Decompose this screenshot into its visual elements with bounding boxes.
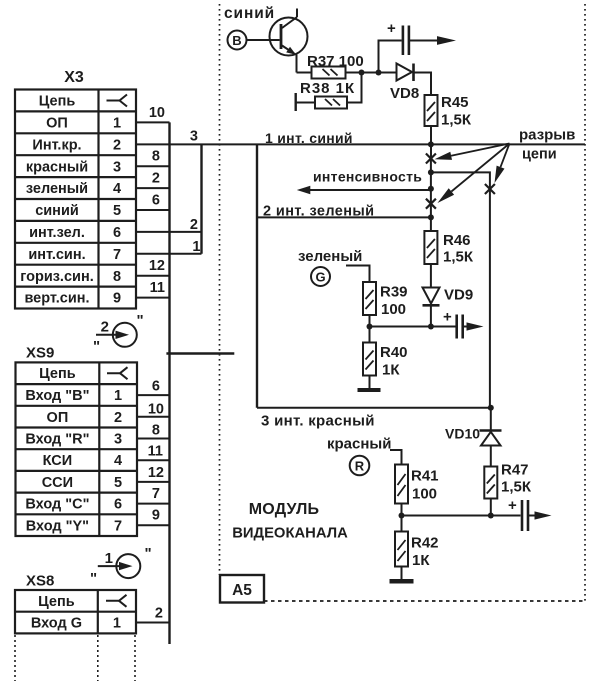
svg-text:Инт.кр.: Инт.кр. xyxy=(32,137,81,153)
svg-text:1,5К: 1,5К xyxy=(443,249,474,266)
wire red input xyxy=(390,450,402,465)
svg-text:верт.син.: верт.син. xyxy=(24,291,89,307)
wire R38 to node xyxy=(347,73,362,103)
arrow intensity left xyxy=(297,186,311,195)
wire capacitor to arrow xyxy=(410,40,440,42)
XS8 table texts xyxy=(31,594,121,632)
break cross 1 xyxy=(426,154,436,164)
svg-text:2: 2 xyxy=(190,217,198,233)
svg-text:4: 4 xyxy=(113,181,121,197)
wire base lead xyxy=(247,39,280,41)
wire XS9 pin 7 stub xyxy=(137,524,170,526)
resistor R47 xyxy=(484,467,497,499)
resistor R39 xyxy=(363,282,376,315)
wire green rail xyxy=(370,326,456,328)
svg-text:разрыв: разрыв xyxy=(519,127,575,144)
svg-text:7: 7 xyxy=(152,486,160,502)
wire VD10 from line3 xyxy=(490,408,492,430)
svg-text:1: 1 xyxy=(113,616,121,632)
svg-text:VD9: VD9 xyxy=(444,287,473,304)
wire X3 pin 1 stub xyxy=(136,121,170,123)
dotted table continuation below XS8 xyxy=(15,635,135,681)
svg-text:R38 1К: R38 1К xyxy=(300,80,355,97)
svg-text:3: 3 xyxy=(190,129,198,145)
arrow out green xyxy=(464,326,470,328)
svg-text:5: 5 xyxy=(113,203,121,219)
svg-text:3: 3 xyxy=(113,159,121,175)
adjustment symbol 2 xyxy=(93,312,144,355)
module dashed border left xyxy=(219,4,221,575)
svg-text:1,5К: 1,5К xyxy=(501,479,532,496)
arrow out red xyxy=(529,515,537,517)
svg-text:G: G xyxy=(315,270,325,285)
svg-text:зеленый: зеленый xyxy=(298,248,362,265)
svg-text:1,5К: 1,5К xyxy=(441,112,472,129)
node dot line3 xyxy=(488,405,494,411)
node dot R47 rail xyxy=(488,513,494,519)
svg-text:R46: R46 xyxy=(443,232,471,249)
svg-text:2: 2 xyxy=(155,606,163,622)
svg-text:ХS9: ХS9 xyxy=(26,345,54,362)
svg-text:12: 12 xyxy=(149,258,165,274)
svg-text:R: R xyxy=(355,459,365,474)
resistor R38 xyxy=(315,97,347,109)
svg-text:зеленый: зеленый xyxy=(26,181,88,197)
wire R41 to R42 xyxy=(401,516,403,532)
svg-text:Вход "Y": Вход "Y" xyxy=(26,518,89,534)
wire line 1 int blue xyxy=(136,143,585,145)
wire XS9 pin 4 stub xyxy=(137,459,170,461)
wire bus A vertical xyxy=(168,122,170,644)
svg-text:Х3: Х3 xyxy=(64,69,84,86)
svg-text:КСИ: КСИ xyxy=(43,453,73,469)
resistor R41 xyxy=(395,465,408,504)
wire XS9 pin 1 stub xyxy=(137,394,170,396)
svg-text:4: 4 xyxy=(114,453,122,469)
svg-text:2 инт. зеленый: 2 инт. зеленый xyxy=(263,204,374,220)
connector table XS9 xyxy=(16,362,138,536)
svg-text:МОДУЛЬ: МОДУЛЬ xyxy=(249,501,319,518)
svg-text:Вход "С": Вход "С" xyxy=(25,497,89,513)
svg-text:ВИДЕОКАНАЛА: ВИДЕОКАНАЛА xyxy=(232,526,348,542)
svg-text:синий: синий xyxy=(224,5,275,22)
leader arrow to cross 3 xyxy=(501,144,510,168)
break cross 3 xyxy=(485,184,495,194)
svg-text:12: 12 xyxy=(148,465,164,481)
transistor VT (blue) xyxy=(270,9,308,73)
module dashed border right xyxy=(584,4,586,601)
wire X3 pin 4 stub xyxy=(136,187,170,189)
wire R39 to R40 xyxy=(369,327,371,343)
node dot VD9 rail xyxy=(428,324,434,330)
wire XS9 pin 6 stub xyxy=(137,503,170,505)
ground R42 xyxy=(390,579,414,584)
svg-text:Цепь: Цепь xyxy=(38,594,75,610)
svg-text:9: 9 xyxy=(152,508,160,524)
svg-text:8: 8 xyxy=(152,423,160,439)
wire X3 pin 9 stub xyxy=(136,297,170,299)
wire bar to R38 xyxy=(297,102,316,104)
svg-text:гориз.син.: гориз.син. xyxy=(20,269,93,285)
svg-text:6: 6 xyxy=(114,497,122,513)
capacitor C green xyxy=(457,315,463,339)
node dot R39 xyxy=(367,324,373,330)
wire right branch to second break xyxy=(431,172,490,407)
svg-text:+: + xyxy=(508,497,517,514)
resistor R42 xyxy=(395,532,408,567)
svg-text:9: 9 xyxy=(113,291,121,307)
wire VD9 to rail xyxy=(430,306,432,327)
svg-text:красный: красный xyxy=(327,436,391,453)
wire R41 to rail xyxy=(401,504,403,516)
svg-text:": " xyxy=(137,312,144,329)
svg-text:VD10: VD10 xyxy=(445,426,480,442)
svg-text:10: 10 xyxy=(148,402,164,418)
svg-text:ХS8: ХS8 xyxy=(26,573,54,590)
svg-text:+: + xyxy=(443,309,452,326)
module designator A5 box xyxy=(220,575,264,603)
svg-text:Вход "В": Вход "В" xyxy=(25,388,89,404)
svg-text:ССИ: ССИ xyxy=(42,475,73,491)
wire bus C vertical xyxy=(256,144,258,407)
svg-text:6: 6 xyxy=(113,225,121,241)
svg-text:синий: синий xyxy=(35,203,79,219)
node G circled xyxy=(311,267,330,286)
diode VD10 xyxy=(480,431,502,446)
svg-text:3: 3 xyxy=(114,432,122,448)
wire R37 to VD8 xyxy=(346,72,397,74)
svg-text:100: 100 xyxy=(381,301,406,318)
svg-text:VD8: VD8 xyxy=(390,85,419,102)
svg-text:1: 1 xyxy=(113,116,121,132)
svg-text:+: + xyxy=(387,20,396,37)
svg-text:8: 8 xyxy=(152,149,160,165)
svg-text:10: 10 xyxy=(149,105,165,121)
svg-text:1К: 1К xyxy=(382,362,400,379)
node dot branch xyxy=(428,169,434,175)
svg-text:ОП: ОП xyxy=(47,410,69,426)
svg-text:11: 11 xyxy=(148,444,163,460)
resistor R37 xyxy=(312,67,346,79)
svg-text:R45: R45 xyxy=(441,94,469,111)
wire VD8 to R45 xyxy=(415,73,432,96)
node dot R41 xyxy=(399,513,405,519)
svg-text:2: 2 xyxy=(114,410,122,426)
svg-text:ОП: ОП xyxy=(46,116,68,132)
wire XS9 pin 2 stub xyxy=(137,416,170,418)
svg-text:8: 8 xyxy=(113,269,121,285)
wire line2 to R46 xyxy=(430,217,432,231)
svg-text:11: 11 xyxy=(150,280,165,296)
wire XS9 pin 3 stub xyxy=(137,438,170,440)
diode VD8 xyxy=(397,64,414,82)
X3 table texts xyxy=(20,94,121,307)
wire X3 pin 5 stub xyxy=(136,209,170,211)
wire X3 pin 6 to bus xyxy=(136,231,202,233)
terminal bar R38 left xyxy=(295,93,297,111)
leader arrow to cross 1 xyxy=(451,144,509,156)
XS9 table texts xyxy=(25,366,122,534)
XS9 header pin symbol xyxy=(107,367,128,373)
svg-text:2: 2 xyxy=(113,137,121,153)
svg-text:2: 2 xyxy=(152,171,160,187)
connector table XS8 xyxy=(15,590,136,633)
svg-text:интенсивность: интенсивность xyxy=(313,169,422,185)
adjustment symbol 1 xyxy=(90,545,152,587)
diode VD9 xyxy=(423,288,440,306)
svg-text:Вход G: Вход G xyxy=(31,616,82,632)
wire red rail xyxy=(402,515,521,517)
node dot line1 xyxy=(428,141,434,147)
svg-text:Цепь: Цепь xyxy=(39,366,76,382)
resistor R45 xyxy=(425,95,438,126)
node dot xyxy=(376,70,382,76)
svg-text:100: 100 xyxy=(412,486,437,503)
resistor R46 xyxy=(424,231,437,264)
capacitor C top xyxy=(403,26,409,56)
wire bus B vertical xyxy=(200,144,202,253)
svg-text:": " xyxy=(145,545,152,562)
XS8 header pin symbol xyxy=(106,595,127,601)
svg-text:Цепь: Цепь xyxy=(39,94,76,110)
svg-text:Вход "R": Вход "R" xyxy=(25,432,89,448)
wire branch at y353 xyxy=(166,352,234,354)
wire R39 to rail xyxy=(369,315,371,327)
wire R40 to ground xyxy=(369,376,371,389)
wire VD10 to R47 xyxy=(490,446,492,467)
wire XS9 pin 5 stub xyxy=(137,481,170,483)
wire node up to capacitor xyxy=(379,41,402,73)
node dot xyxy=(359,70,365,76)
svg-text:5: 5 xyxy=(114,475,122,491)
arrow out top xyxy=(437,36,456,45)
svg-text:7: 7 xyxy=(114,518,122,534)
svg-text:красный: красный xyxy=(26,159,88,175)
svg-text:1 инт. синий: 1 инт. синий xyxy=(265,130,353,146)
node dot intensity xyxy=(428,186,434,192)
capacitor C red xyxy=(522,500,528,531)
wire line 3 int red xyxy=(257,407,491,409)
wire emitter to R37 xyxy=(297,72,312,74)
svg-text:1К: 1К xyxy=(412,552,430,569)
wire X3 pin 3 stub xyxy=(136,165,170,167)
svg-text:инт.син.: инт.син. xyxy=(28,247,85,263)
svg-text:2: 2 xyxy=(101,319,109,336)
svg-text:R40: R40 xyxy=(380,344,408,361)
wire R47 to rail xyxy=(490,499,492,516)
svg-text:R47: R47 xyxy=(501,462,529,479)
wire green input xyxy=(346,266,370,283)
svg-text:цепи: цепи xyxy=(522,147,557,163)
svg-text:инт.зел.: инт.зел. xyxy=(29,225,85,241)
wire intensity arrow xyxy=(308,189,431,191)
svg-text:3 инт. красный: 3 инт. красный xyxy=(261,413,375,430)
wire R42 to ground xyxy=(401,567,403,580)
svg-text:": " xyxy=(90,570,97,587)
wire X3 pin 7 to bus xyxy=(136,253,202,255)
node R circled xyxy=(350,456,370,476)
connector table X3 xyxy=(15,90,136,309)
svg-text:6: 6 xyxy=(152,379,160,395)
wire between crosses xyxy=(430,158,432,217)
svg-text:А5: А5 xyxy=(232,582,252,599)
wire line 2 int green xyxy=(257,216,431,218)
resistor R40 xyxy=(363,343,376,376)
wire R45 to line1 xyxy=(430,126,432,158)
module dashed border bottom xyxy=(264,600,585,602)
wire XS8 pin 1 stub xyxy=(136,622,170,624)
svg-text:6: 6 xyxy=(152,193,160,209)
svg-text:7: 7 xyxy=(113,247,121,263)
ground R40 xyxy=(358,388,381,392)
wire X3 pin 8 stub xyxy=(136,275,170,277)
wire R46 to VD9 xyxy=(430,264,432,288)
svg-text:R41: R41 xyxy=(411,468,439,485)
svg-text:1: 1 xyxy=(114,388,122,404)
node dot line2 xyxy=(428,214,434,220)
svg-text:R39: R39 xyxy=(380,284,408,301)
svg-text:В: В xyxy=(232,33,241,48)
break cross 2 xyxy=(426,199,436,209)
X3 header pin symbol xyxy=(107,95,128,101)
svg-text:R42: R42 xyxy=(411,535,439,552)
svg-text:1: 1 xyxy=(192,239,200,255)
svg-text:1: 1 xyxy=(105,550,113,567)
leader arrow to cross 2 xyxy=(451,144,509,192)
node B circled xyxy=(228,31,247,50)
svg-text:": " xyxy=(93,338,100,355)
